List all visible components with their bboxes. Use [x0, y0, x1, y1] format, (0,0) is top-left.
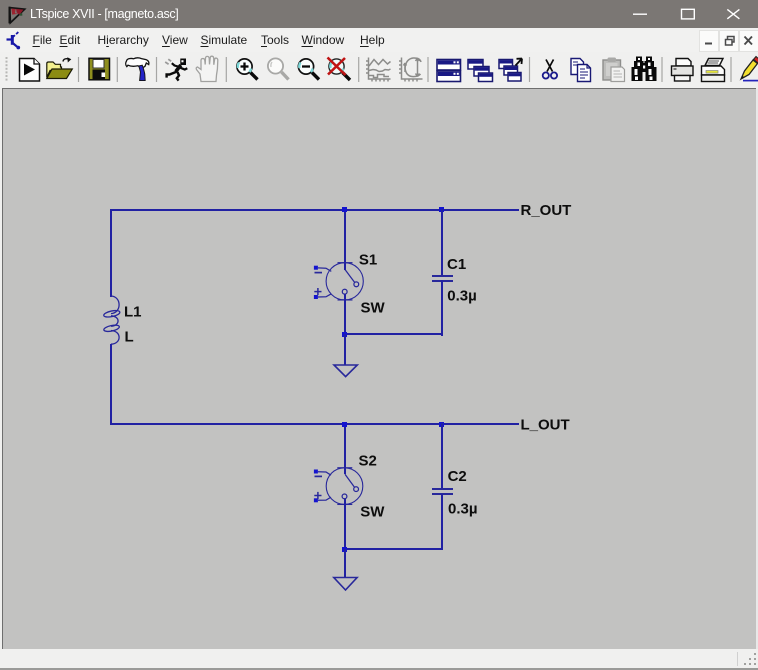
junction node S2 bottom: [342, 547, 347, 552]
menu bar: [0, 28, 758, 52]
status bar: [0, 649, 758, 668]
svg-text:L_OUT: L_OUT: [521, 417, 570, 434]
wire S1 bottom pin: [344, 294, 346, 335]
junction node S1 bottom: [342, 332, 347, 337]
title bar: [0, 0, 758, 28]
svg-text:0.3µ: 0.3µ: [447, 287, 477, 304]
svg-text:0.3µ: 0.3µ: [448, 501, 478, 518]
svg-text:S2: S2: [359, 453, 377, 470]
wire C2 bottom pin: [441, 494, 443, 550]
svg-text:SW: SW: [361, 299, 386, 316]
junction node top wire at S1: [342, 207, 347, 212]
wire bottom net L_OUT: [110, 423, 519, 425]
wire S2 bottom pin: [344, 499, 346, 550]
switch S2: [314, 468, 363, 505]
svg-text:R_OUT: R_OUT: [521, 202, 572, 219]
junction node top wire at C1: [439, 207, 444, 212]
ground symbol lower: [334, 578, 357, 591]
junction node bottom wire at S2: [342, 422, 347, 427]
svg-text:C2: C2: [448, 468, 467, 485]
capacitor C2: [432, 489, 453, 494]
wire S1 top pin: [344, 209, 346, 270]
svg-text:C1: C1: [447, 256, 466, 273]
wire C1 bottom pin: [441, 280, 443, 336]
junction node bottom wire at C2: [439, 422, 444, 427]
wire S2 bottom to C2 bottom: [344, 548, 443, 550]
svg-text:L: L: [125, 328, 134, 345]
wire ground stem upper: [344, 334, 346, 365]
svg-text:L1: L1: [124, 303, 142, 320]
wire ground stem lower: [344, 549, 346, 578]
toolbar: [0, 52, 758, 88]
inductor L1: [103, 296, 120, 344]
svg-text:S1: S1: [359, 251, 377, 268]
wire top net R_OUT: [110, 209, 519, 211]
wire left vertical upper: [110, 209, 112, 297]
wire C2 top pin: [441, 423, 443, 488]
ground symbol upper: [334, 365, 357, 377]
wire C1 top pin: [441, 209, 443, 275]
wire S1 bottom to C1 bottom: [344, 333, 443, 335]
wire S2 top pin: [344, 423, 346, 474]
svg-text:SW: SW: [360, 503, 385, 520]
wire left vertical lower: [110, 344, 112, 425]
switch S1: [314, 263, 363, 300]
capacitor C1: [432, 276, 453, 281]
